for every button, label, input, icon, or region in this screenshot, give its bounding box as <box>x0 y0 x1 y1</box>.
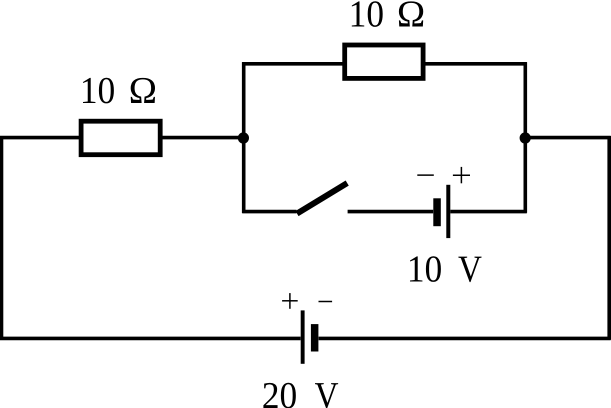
wire: node A down to middle branch <box>242 138 246 213</box>
wire: battery V2 to middle-right corner <box>450 210 527 214</box>
wire: middle branch up to node B <box>523 138 527 213</box>
wire: middle branch to switch contact <box>242 210 296 214</box>
wire: outer left vertical <box>0 136 3 340</box>
wire: outer bottom left segment <box>0 337 301 341</box>
label: V2 minus sign <box>417 174 434 176</box>
wire: left branch, edge to resistor R1 <box>0 136 80 140</box>
resistor R1 (10 ohm, left) <box>81 121 160 155</box>
label: V2 value 10 V <box>410 256 482 282</box>
node B (right junction dot) <box>520 132 531 143</box>
wire: top branch right horizontal <box>424 62 527 66</box>
wire: top branch left horizontal <box>242 62 344 66</box>
label: V1 minus sign <box>319 301 333 303</box>
battery V1 negative plate (short thick) <box>311 324 319 351</box>
battery V2 positive plate (long thin) <box>446 185 450 238</box>
node A (left junction dot) <box>238 132 249 143</box>
resistor R2 (10 ohm, top) <box>345 45 423 78</box>
wire: top branch down to node B <box>523 62 527 139</box>
wire: node A up to top branch <box>242 62 246 139</box>
switch SW1 (open, arm) <box>297 183 347 214</box>
wire: outer bottom right segment <box>319 337 611 341</box>
wire: switch right contact to battery V2 <box>348 210 434 214</box>
wire: resistor R1 to node A <box>162 136 244 140</box>
label: R1 value 10 Ω <box>83 78 155 104</box>
battery V1 positive plate (long thin) <box>301 310 305 363</box>
label: V1 value 20 V <box>263 383 338 408</box>
battery V2 negative plate (short thick) <box>433 198 441 226</box>
label: V1 plus sign <box>282 293 298 309</box>
wire: outer right vertical <box>607 136 611 340</box>
label: V2 plus sign <box>453 167 470 183</box>
label: R2 value 10 Ω <box>352 1 423 27</box>
wire: right node to outer right <box>525 136 610 140</box>
